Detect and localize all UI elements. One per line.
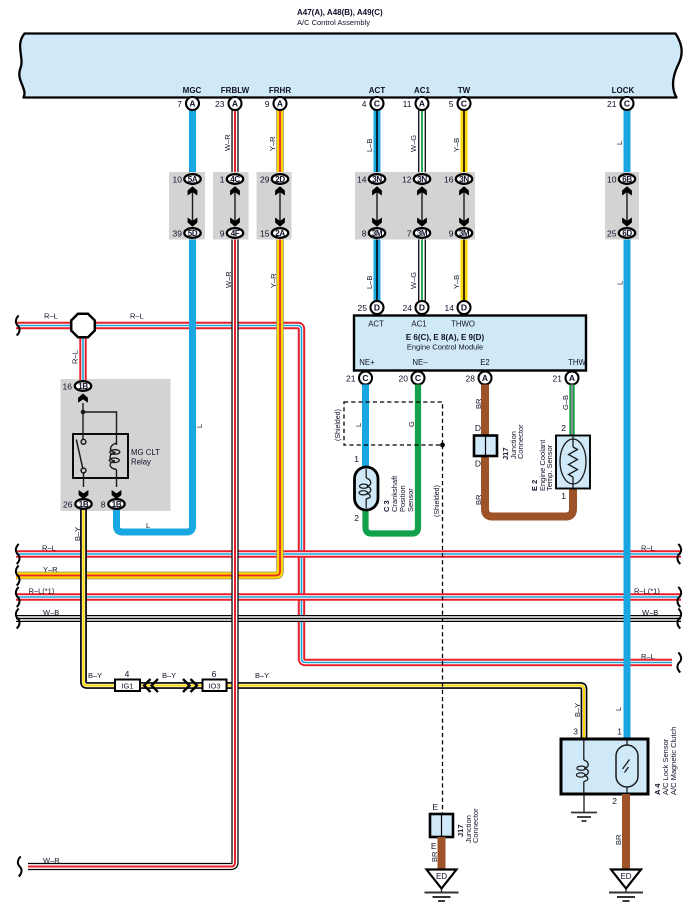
C3 pin 2 label (354, 513, 359, 523)
svg-text:A: A (189, 99, 195, 109)
label (Shielded) upper (335, 409, 342, 441)
svg-text:R–L: R–L (44, 312, 58, 321)
svg-text:ED: ED (620, 872, 631, 881)
relay connector pin 26 (1B) (63, 499, 92, 509)
wire label B-Y (vertical, above A4) (573, 703, 582, 717)
ECM connector pin 24 (D) (403, 301, 429, 314)
svg-text:BR: BR (614, 834, 623, 845)
label (Shielded) lower (434, 485, 441, 517)
wire label Y-R (top) (268, 136, 277, 151)
svg-text:BR: BR (474, 398, 483, 409)
junction connector J17 (D) box (474, 436, 497, 457)
wire L from NE+ to C3 pin 1 (362, 385, 369, 469)
A/C Control Assembly A47/A48/A49 banner (19, 34, 681, 98)
svg-text:MG CLT: MG CLT (131, 448, 160, 457)
wire L-B from junction 3M to ECM pin 25 (374, 239, 381, 302)
ECM connector pin 21 (A) THW (553, 372, 579, 385)
junction block 3N/3M (ACT, AC1, TW) (355, 172, 475, 240)
connector pin 9 (A) FRHR (265, 97, 287, 110)
svg-text:W–B: W–B (43, 608, 59, 617)
svg-text:15: 15 (260, 228, 270, 238)
inline arrows between IG1 and IO3 (144, 679, 197, 692)
wire label L-B (bottom) (365, 276, 374, 289)
ED ground triangle (J17) (427, 870, 457, 889)
svg-text:ACT: ACT (369, 86, 386, 95)
ECM title (406, 333, 485, 352)
node label Y-R left (43, 565, 58, 574)
svg-text:LOCK: LOCK (612, 86, 635, 95)
svg-text:9: 9 (265, 99, 270, 109)
svg-text:L: L (614, 707, 623, 711)
svg-text:BR: BR (430, 851, 439, 862)
ECM pin name AC1 (411, 320, 426, 329)
svg-text:G: G (407, 421, 416, 427)
svg-text:B–Y: B–Y (573, 703, 582, 717)
svg-text:E2: E2 (480, 358, 490, 367)
connector pin 21 (C) LOCK (607, 97, 633, 110)
wire W-G from junction 3M to ECM pin 24 (418, 239, 426, 302)
wire G from NE- to C3 pin 2 (366, 385, 419, 534)
shield drain dashed wire to J17 (442, 445, 444, 814)
svg-text:4: 4 (125, 669, 130, 679)
svg-text:A: A (419, 99, 425, 109)
junction block 6B/6D (LOCK) (605, 172, 639, 240)
wire label B-Y (between IG1 and IO3) (162, 671, 176, 680)
svg-text:1B: 1B (78, 382, 88, 391)
wire label B-Y (before IG1) (88, 671, 102, 680)
wire Y-B from TW: banner to junction 3N (461, 110, 468, 172)
svg-text:A: A (232, 99, 238, 109)
svg-text:2: 2 (354, 513, 359, 523)
connector pin 7 (A) MGC (177, 97, 199, 110)
ECM pin name E2 (480, 358, 490, 367)
svg-text:L: L (615, 141, 624, 145)
svg-text:21: 21 (346, 373, 356, 383)
E2 pin 2 label (561, 423, 566, 433)
svg-text:IG1: IG1 (121, 682, 133, 691)
relay block background (61, 379, 171, 511)
svg-text:THWO: THWO (451, 320, 475, 329)
node label R-L right (641, 544, 655, 553)
C3 pin 1 label (354, 454, 359, 464)
svg-text:7: 7 (407, 228, 412, 238)
svg-text:B–Y: B–Y (162, 671, 176, 680)
wire BR from J17 down, right, up to E2 pin 1 (485, 456, 573, 517)
A4 pin 1 label (617, 727, 622, 737)
svg-text:Connector: Connector (516, 424, 525, 459)
svg-text:A/C Control Assembly: A/C Control Assembly (297, 18, 370, 27)
svg-text:2A: 2A (275, 229, 285, 238)
wire L from MGC: banner to junction 5A (189, 110, 196, 172)
svg-text:3N: 3N (459, 175, 469, 184)
ECM pin name THW (568, 358, 586, 367)
svg-text:W–B: W–B (642, 608, 658, 617)
A4 internal ground (coil) (571, 794, 597, 821)
svg-text:3M: 3M (459, 229, 470, 238)
svg-text:TW: TW (458, 86, 471, 95)
label C 3 Crankshaft Position Sensor (382, 475, 415, 512)
svg-text:29: 29 (260, 174, 270, 184)
node label R-L(*1) left (29, 587, 55, 596)
svg-text:NE+: NE+ (359, 358, 375, 367)
svg-text:A/C Magnetic Clutch: A/C Magnetic Clutch (669, 727, 678, 795)
svg-text:R–L: R–L (130, 312, 144, 321)
wire label W-G (bottom) (409, 272, 418, 289)
svg-text:L–B: L–B (365, 139, 374, 152)
wire label G-B (561, 395, 570, 410)
svg-text:Y–B: Y–B (452, 138, 461, 152)
wire label B-Y (after IO3) (255, 671, 269, 680)
svg-text:3M: 3M (417, 229, 428, 238)
svg-text:E 6(C), E 8(A), E 9(D): E 6(C), E 8(A), E 9(D) (406, 333, 485, 342)
svg-text:1: 1 (617, 727, 622, 737)
relay connector pin 8 (1B) (101, 499, 125, 509)
label A 4 A/C Lock Sensor A/C Magnetic Clutch (653, 727, 678, 795)
node label R-L (right of octagon) (130, 312, 144, 321)
wire label W-G (top) (409, 135, 418, 152)
wire label L (horizontal from relay) (146, 521, 150, 530)
svg-text:ACT: ACT (368, 320, 384, 329)
node label R-L(*1) right (634, 587, 660, 596)
svg-text:L–B: L–B (365, 276, 374, 289)
connector pin 4 (C) ACT (362, 97, 384, 110)
svg-text:FRBLW: FRBLW (221, 86, 250, 95)
svg-text:Temp. Sensor: Temp. Sensor (545, 444, 554, 491)
svg-text:C: C (624, 99, 630, 109)
svg-text:1: 1 (561, 491, 566, 501)
wire Y-B from junction 3M to ECM pin 14 (461, 239, 468, 302)
A4 pin 3 label (573, 727, 578, 737)
svg-text:10: 10 (607, 174, 617, 184)
svg-text:A: A (277, 99, 283, 109)
svg-text:5D: 5D (188, 229, 198, 238)
ECM pin name ACT (368, 320, 384, 329)
svg-text:1B: 1B (79, 500, 89, 509)
svg-text:6D: 6D (622, 229, 632, 238)
wire R-L(*1) bus (full width, y=597) (16, 587, 681, 607)
svg-text:L: L (195, 424, 204, 428)
node label W-B right (642, 608, 658, 617)
svg-text:D: D (475, 423, 481, 433)
svg-text:25: 25 (607, 228, 617, 238)
E2 pin 1 label (561, 491, 566, 501)
wire G-B from ECM THW pin 21 to E2 pin 2 (569, 385, 574, 437)
svg-text:11: 11 (403, 99, 412, 109)
svg-text:Y–R: Y–R (269, 273, 278, 288)
ECM connector pin 25 (D) (358, 301, 384, 314)
svg-text:26: 26 (63, 499, 73, 509)
svg-text:BR: BR (474, 494, 483, 505)
svg-text:16: 16 (63, 381, 73, 391)
wire label L (above A4) (614, 707, 623, 711)
wire L-B from ACT: banner to junction 3N (374, 110, 381, 172)
svg-text:2: 2 (612, 796, 617, 806)
svg-text:14: 14 (445, 303, 455, 313)
banner title A47(A), A48(B), A49(C) (297, 8, 383, 27)
svg-text:FRHR: FRHR (269, 86, 291, 95)
node label R-L left (42, 544, 56, 553)
svg-text:4C: 4C (230, 175, 240, 184)
svg-text:(Shielded): (Shielded) (335, 409, 342, 441)
wire label L (inside shield) (354, 423, 363, 427)
wire label W-R (bottom horizontal) (43, 856, 60, 865)
wire label L (below junction 6D) (616, 281, 625, 285)
wire L from LOCK: banner to junction 6B (624, 110, 631, 172)
svg-text:1B: 1B (112, 500, 122, 509)
svg-text:1: 1 (220, 174, 225, 184)
svg-text:2D: 2D (275, 175, 285, 184)
ground symbol (J17 ED) (425, 889, 459, 902)
svg-text:21: 21 (607, 99, 617, 109)
svg-text:L: L (616, 281, 625, 285)
wire W-B bus (full width, y=618.5) (16, 609, 681, 629)
A4 A/C Lock Sensor / Magnetic Clutch box (561, 739, 648, 794)
svg-text:3: 3 (573, 727, 578, 737)
wire label Y-B (bottom) (452, 275, 461, 289)
node label W-B left (43, 608, 59, 617)
svg-text:ED: ED (436, 872, 447, 881)
svg-text:W–R: W–R (224, 271, 233, 288)
wire label W-R (below junction) (224, 271, 233, 288)
relay MG CLT coil-contact internals (73, 394, 128, 500)
svg-text:9: 9 (220, 228, 225, 238)
svg-text:3N: 3N (372, 175, 382, 184)
svg-text:Y–R: Y–R (268, 136, 277, 151)
wire label Y-R (below junction) (269, 273, 278, 288)
relay connector pin 16 (1B) (63, 381, 92, 391)
svg-text:E: E (431, 841, 437, 851)
wire label W-R (top) (223, 134, 232, 151)
ECM connector pin 14 (D) (445, 301, 471, 314)
junction block 4C/4F (FRBLW) (213, 172, 249, 240)
svg-text:21: 21 (553, 373, 563, 383)
svg-text:D: D (461, 303, 467, 313)
svg-text:Y–R: Y–R (43, 565, 58, 574)
svg-text:B–Y: B–Y (73, 527, 82, 541)
svg-text:D: D (475, 459, 481, 469)
svg-text:A47(A), A48(B), A49(C): A47(A), A48(B), A49(C) (297, 8, 383, 17)
wire label BR (J17) (430, 851, 439, 862)
svg-text:W–G: W–G (409, 272, 418, 289)
label E 2 Engine Coolant Temp. Sensor (530, 439, 554, 491)
svg-text:R–L: R–L (71, 350, 80, 364)
svg-text:2: 2 (561, 423, 566, 433)
E2 engine coolant temp sensor box (556, 436, 590, 489)
svg-text:5: 5 (449, 99, 454, 109)
node label R-L (right edge lower) (641, 652, 655, 661)
svg-text:W–R: W–R (43, 856, 60, 865)
svg-text:AC1: AC1 (411, 320, 426, 329)
ECM pin name NE- (412, 358, 428, 367)
svg-text:Engine Control Module: Engine Control Module (407, 343, 483, 352)
svg-text:IO3: IO3 (208, 682, 220, 691)
wire label B-Y (vertical, near relay) (73, 527, 82, 541)
svg-text:7: 7 (177, 99, 182, 109)
wire Y-R from FRHR: banner to junction 2D (276, 110, 283, 172)
svg-text:B–Y: B–Y (88, 671, 102, 680)
svg-text:R–L(*1): R–L(*1) (29, 587, 55, 596)
junction connector J17 (E) box lower (430, 814, 453, 837)
wire BR from A4 pin 2 to ED ground (622, 794, 630, 869)
svg-text:Y–B: Y–B (452, 275, 461, 289)
svg-text:L: L (354, 423, 363, 427)
ECM pin name NE+ (359, 358, 375, 367)
ECM E6/E8/E9 Engine Control Module box (354, 316, 586, 371)
svg-text:(Shielded): (Shielded) (434, 485, 441, 517)
svg-text:Connector: Connector (471, 808, 480, 843)
svg-text:8: 8 (101, 499, 106, 509)
ECM pin name THWO (451, 320, 475, 329)
svg-text:R–L(*1): R–L(*1) (634, 587, 660, 596)
svg-text:5A: 5A (188, 175, 198, 184)
wire R-L octagon to relay pin 16 (79, 330, 86, 380)
J17 pin D label (bottom) (475, 459, 481, 469)
ECM connector pin 28 (A) E2 (466, 372, 492, 385)
svg-text:A: A (482, 373, 488, 383)
svg-text:6B: 6B (622, 175, 632, 184)
ECM connector pin 21 (C) NE+ (346, 372, 372, 385)
J17 pin D label (top) (475, 423, 481, 433)
svg-text:23: 23 (215, 99, 225, 109)
svg-text:Relay: Relay (131, 458, 151, 467)
wire label L (top) (615, 141, 624, 145)
svg-text:AC1: AC1 (414, 86, 431, 95)
inline connector IG1 (pin 4) (115, 669, 140, 691)
ED ground triangle (A4) (611, 870, 641, 889)
inline connector IO3 (pin 6) (203, 669, 227, 691)
ECM connector pin 20 (C) NE- (399, 372, 425, 385)
svg-text:16: 16 (444, 174, 454, 184)
splice octagon node (71, 314, 95, 338)
junction block 2D/2A (FRHR) (257, 172, 292, 240)
wire BR from ECM E2 pin 28 to J17 (481, 385, 489, 437)
svg-text:3M: 3M (372, 229, 383, 238)
svg-text:C: C (374, 99, 380, 109)
svg-text:R–L: R–L (42, 544, 56, 553)
svg-text:L: L (146, 521, 150, 530)
label J17 Junction Connector (lower) (456, 808, 480, 843)
svg-text:1: 1 (354, 454, 359, 464)
svg-text:W–G: W–G (409, 135, 418, 152)
svg-text:3N: 3N (417, 175, 427, 184)
svg-text:39: 39 (173, 228, 183, 238)
svg-text:G–B: G–B (561, 395, 570, 410)
svg-text:C: C (461, 99, 467, 109)
svg-text:MGC: MGC (183, 86, 202, 95)
wire W-R from junction 4F down and left to edge (18, 239, 235, 877)
svg-text:24: 24 (403, 303, 413, 313)
svg-text:4: 4 (362, 99, 367, 109)
svg-text:25: 25 (358, 303, 368, 313)
svg-text:6: 6 (212, 669, 217, 679)
wire label BR (A4) (614, 834, 623, 845)
wire R-L bus from octagon to right edge (turns down at x301 to lower R-L) (16, 316, 681, 673)
svg-text:E: E (432, 802, 438, 812)
connector pin 11 (A) AC1 (403, 97, 429, 110)
svg-text:28: 28 (466, 373, 476, 383)
wire label L-B (top) (365, 139, 374, 152)
wire W-R from FRBLW: banner to junction 4C (231, 110, 238, 172)
svg-text:THW: THW (568, 358, 586, 367)
svg-text:D: D (419, 303, 425, 313)
wire R-L bus (full width, y=554) (16, 544, 681, 564)
shielded cable dashed outline (344, 402, 445, 447)
svg-text:A: A (569, 373, 575, 383)
svg-text:Sensor: Sensor (406, 488, 415, 512)
relay label MG CLT Relay (131, 448, 160, 467)
svg-text:C: C (362, 373, 368, 383)
svg-text:NE–: NE– (412, 358, 428, 367)
wire B-Y from relay pin 26 down, right through IG1/IO3, to A4 pin 3 (84, 509, 585, 739)
svg-text:8: 8 (362, 228, 367, 238)
wire label G (inside shield) (407, 421, 416, 427)
wire label BR (lower) (474, 494, 483, 505)
node label R-L (left of octagon) (44, 312, 58, 321)
connector pin 23 (A) FRBLW (215, 97, 241, 110)
wire label R-L (vertical above relay) (71, 350, 80, 364)
ground symbol (A4 ED) (609, 889, 643, 902)
svg-text:R–L: R–L (641, 652, 655, 661)
svg-text:14: 14 (357, 174, 367, 184)
svg-text:R–L: R–L (641, 544, 655, 553)
wire label BR (upper) (474, 398, 483, 409)
svg-text:W–R: W–R (223, 134, 232, 151)
svg-text:D: D (374, 303, 380, 313)
svg-text:9: 9 (449, 228, 454, 238)
wire L from junction 5D down to relay pin 8 branch (117, 239, 193, 532)
svg-text:20: 20 (399, 373, 409, 383)
wire BR from J17 to ED ground (438, 837, 446, 869)
wire W-G from AC1: banner to junction 3N (418, 110, 426, 172)
wire label L (vertical under 5D) (195, 424, 204, 428)
svg-text:C: C (415, 373, 421, 383)
connector pin 5 (C) TW (449, 97, 471, 110)
wire L from junction 6D down to A4 pin 1 (624, 239, 631, 739)
J17 pin E label (bottom) (431, 841, 437, 851)
C3 sensor symbol (355, 467, 379, 510)
A4 pin 2 label (612, 796, 617, 806)
svg-text:B–Y: B–Y (255, 671, 269, 680)
wire label Y-B (top) (452, 138, 461, 152)
svg-text:4F: 4F (231, 229, 240, 238)
wire Y-R bus from left edge turning up into FRHR drop (16, 239, 280, 586)
junction block 5A/5D (MGC) (169, 172, 205, 240)
svg-text:10: 10 (173, 174, 183, 184)
banner pin names (183, 86, 635, 95)
svg-text:12: 12 (402, 174, 412, 184)
J17 pin E label (top) (432, 802, 438, 812)
label J17 Junction Connector (upper) (501, 424, 525, 460)
